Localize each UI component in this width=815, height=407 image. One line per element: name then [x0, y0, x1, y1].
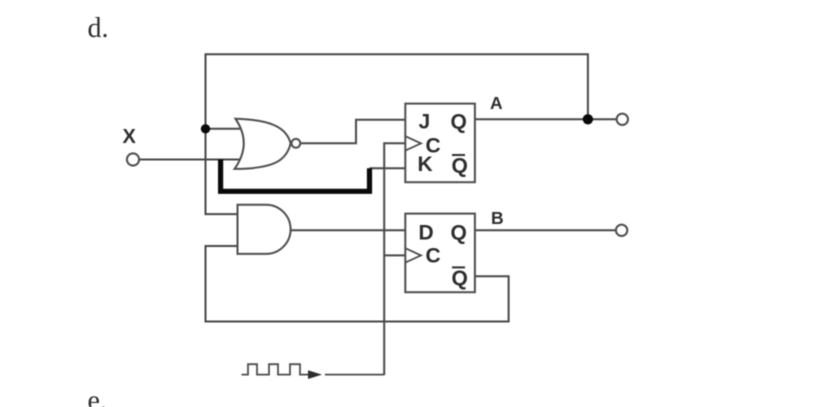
NOR gate G1 [235, 119, 301, 169]
D flip-flop U2 box [405, 214, 475, 293]
wire NOR output to J input [300, 120, 405, 144]
wire thin segment thick-bus to K input [370, 167, 406, 169]
D clock triangle [405, 248, 421, 262]
clock waveform symbol [242, 364, 310, 374]
terminal X input [127, 153, 139, 165]
wire AND output to D input [291, 229, 405, 231]
terminal A output [617, 114, 628, 125]
svg-text:Q: Q [452, 154, 468, 177]
wire clock branch to D C input [384, 254, 405, 256]
clock arrowhead [308, 370, 322, 379]
svg-text:e.: e. [88, 386, 107, 407]
svg-text:Q: Q [451, 110, 467, 133]
wire NOR top input stub [206, 128, 241, 130]
svg-text:A: A [490, 93, 503, 113]
svg-text:D: D [419, 221, 434, 244]
AND gate G2 [238, 205, 291, 254]
wire clock vertical to JK C input [384, 143, 405, 375]
junction node A on output line [583, 114, 593, 124]
svg-text:X: X [123, 126, 137, 148]
wire A output (JK Q to terminal) [475, 118, 616, 120]
terminal B output [616, 225, 627, 236]
wire node column down to AND top input [206, 129, 238, 214]
svg-text:Q: Q [452, 267, 468, 290]
svg-text:K: K [418, 153, 433, 176]
wire B output (D Q to terminal) [475, 229, 616, 231]
wire D Qbar feedback loop to AND bottom input [206, 246, 509, 322]
wire top feedback (node A to NOR input node) [206, 54, 588, 129]
wire X input line [140, 159, 243, 161]
wire thick bus X to K [221, 160, 370, 192]
JK flip-flop U1 box [405, 104, 475, 183]
svg-text:C: C [426, 245, 441, 268]
svg-text:B: B [491, 208, 504, 228]
svg-text:d.: d. [88, 13, 109, 44]
JK clock triangle [405, 136, 421, 150]
svg-text:Q: Q [451, 221, 467, 244]
svg-text:J: J [419, 110, 431, 133]
junction node at NOR input column [201, 124, 210, 133]
wire clock lead to vertical [325, 374, 384, 376]
